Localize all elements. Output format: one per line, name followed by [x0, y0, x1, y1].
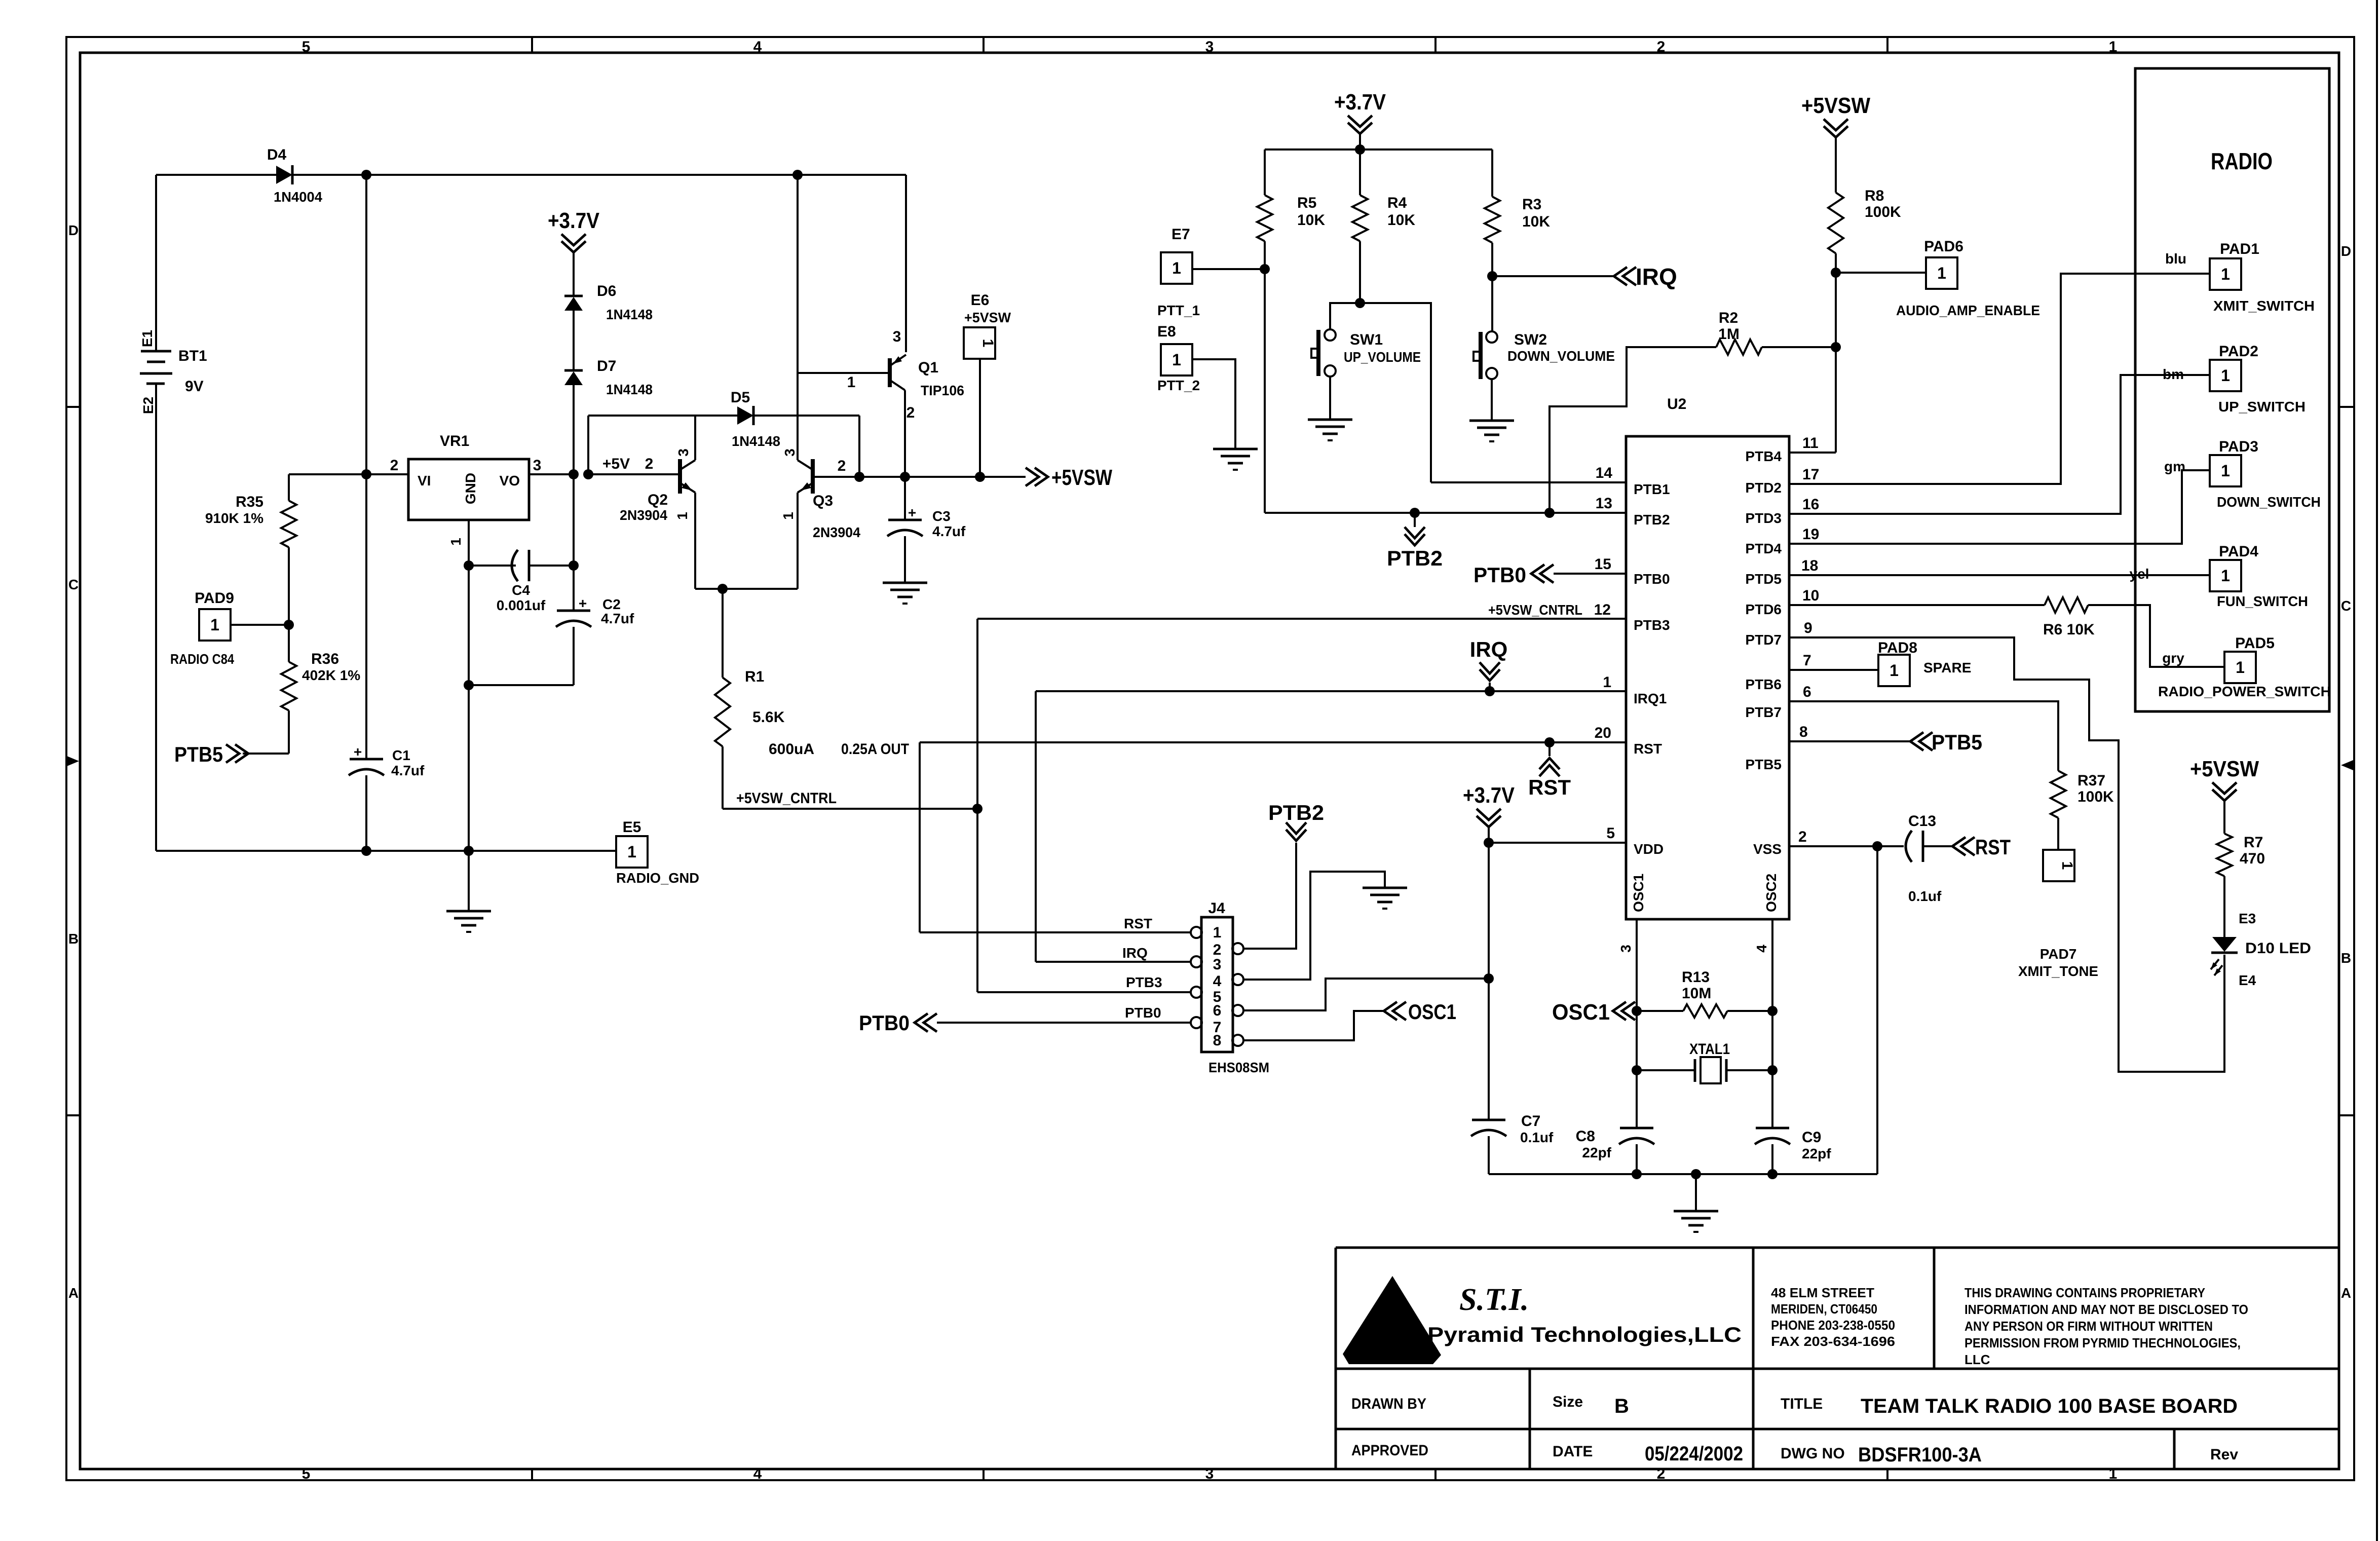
svg-text:2: 2	[1657, 1465, 1666, 1482]
node C9 rail	[1767, 1169, 1778, 1179]
svg-text:1: 1	[674, 512, 690, 520]
svg-text:blu: blu	[2165, 251, 2186, 267]
svg-text:VDD: VDD	[1634, 841, 1664, 857]
wire node down to R2	[1835, 273, 1837, 347]
wire VSS branch down to OSC ground rail	[1876, 846, 1878, 1174]
svg-text:470: 470	[2240, 850, 2265, 867]
wire C13 to RST tag	[1923, 845, 1951, 847]
mid-page arrow left border	[67, 756, 79, 766]
wire E8 to ground	[1192, 359, 1235, 449]
svg-text:DWG NO: DWG NO	[1781, 1445, 1845, 1462]
IC U2 MC68HC908	[1626, 436, 1789, 919]
node C4 right	[569, 560, 579, 571]
svg-text:Size: Size	[1553, 1394, 1583, 1410]
svg-text:3: 3	[1205, 39, 1214, 55]
svg-text:2: 2	[390, 457, 399, 474]
transistor Q3 2N3904	[811, 459, 815, 494]
wire U2 pin13 PTB2 net	[1265, 512, 1626, 514]
svg-text:D10 LED: D10 LED	[2245, 940, 2311, 957]
wire U2 pin6 PTB7 to R37	[1789, 701, 2058, 771]
svg-text:48 ELM STREET: 48 ELM STREET	[1771, 1285, 1874, 1300]
svg-text:PTB2: PTB2	[1387, 546, 1443, 570]
svg-text:PTD6: PTD6	[1745, 602, 1782, 617]
wire R6 to PAD5	[2088, 605, 2224, 667]
node IRQ tag stem	[1485, 686, 1495, 696]
node Q1 collector on +5VSW rail	[900, 472, 910, 482]
svg-text:J4: J4	[1208, 900, 1225, 917]
transistor Q2 2N3904	[678, 459, 682, 494]
svg-text:4.7uf: 4.7uf	[932, 523, 966, 539]
pin 5 J4	[1191, 987, 1202, 998]
wire emitter node to R1	[722, 589, 724, 678]
svg-text:1M: 1M	[1718, 326, 1740, 343]
svg-text:20: 20	[1595, 725, 1611, 741]
svg-text:PTB2: PTB2	[1634, 512, 1670, 528]
svg-text:PTB3: PTB3	[1634, 617, 1670, 633]
svg-text:B: B	[2341, 950, 2351, 966]
wire U2 pin19 PTD4 to PAD3	[1789, 470, 2210, 544]
wire main vertical to C1	[365, 474, 367, 759]
svg-text:1: 1	[210, 616, 219, 634]
svg-text:3: 3	[1213, 956, 1222, 973]
svg-text:0.1uf: 0.1uf	[1520, 1130, 1554, 1145]
svg-text:E1: E1	[139, 330, 155, 347]
svg-text:2N3904: 2N3904	[813, 524, 860, 540]
node E6 on rail	[975, 472, 985, 482]
svg-text:Rev: Rev	[2210, 1446, 2238, 1463]
svg-text:1N4004: 1N4004	[274, 189, 322, 205]
svg-text:E8: E8	[1157, 323, 1176, 340]
svg-text:6: 6	[1803, 684, 1811, 700]
svg-text:C8: C8	[1576, 1128, 1595, 1145]
node PAD9 junction	[284, 620, 294, 630]
svg-text:600uA: 600uA	[769, 741, 814, 758]
wire J4 pin8 to OSC1 tag	[1242, 1011, 1383, 1040]
svg-text:E6: E6	[971, 292, 990, 309]
svg-text:+: +	[908, 505, 916, 520]
wire +3.7V to VDD node	[1488, 826, 1490, 843]
net tag IRQ (pin1)	[1489, 683, 1491, 691]
wire battery positive rail	[155, 175, 157, 351]
svg-text:RST: RST	[1634, 741, 1662, 757]
svg-text:EHS08SM: EHS08SM	[1208, 1060, 1269, 1075]
svg-text:E2: E2	[140, 397, 156, 414]
svg-text:Q2: Q2	[648, 492, 668, 508]
svg-text:4.7uf: 4.7uf	[601, 611, 634, 626]
wire U2 pin11 PTB4 to R8 branch	[1789, 452, 1836, 454]
svg-text:TIP106: TIP106	[921, 383, 964, 398]
wire Q2 emitter down	[694, 493, 696, 589]
svg-text:E5: E5	[623, 819, 641, 836]
node XTAL1 left	[1632, 1065, 1642, 1075]
wire node to PAD6	[1836, 272, 1926, 274]
node GND rail	[464, 846, 474, 856]
node OSC1 net	[1632, 1006, 1642, 1016]
svg-text:OSC1: OSC1	[1408, 1000, 1456, 1024]
svg-text:RADIO: RADIO	[2211, 148, 2273, 174]
svg-text:B: B	[68, 931, 79, 947]
wire J4 pin2 to PTB2 tag	[1242, 843, 1296, 949]
power tag +3.7V (VDD)	[1488, 826, 1490, 834]
node GND-C2 return	[464, 680, 474, 690]
wire C9 to rail	[1771, 1144, 1773, 1174]
svg-text:1N4148: 1N4148	[606, 382, 653, 397]
node PTB2 tag stem	[1410, 508, 1420, 518]
svg-text:3: 3	[782, 448, 798, 457]
svg-text:+3.7V: +3.7V	[1334, 90, 1386, 115]
svg-text:OSC1: OSC1	[1552, 1000, 1610, 1025]
pad PAD3 DOWN_SWITCH	[2210, 455, 2241, 486]
svg-text:C2: C2	[602, 596, 621, 612]
svg-text:6: 6	[1213, 1002, 1222, 1019]
net tag RST (pin20)	[1548, 742, 1551, 756]
svg-text:+3.7V: +3.7V	[548, 208, 600, 233]
svg-text:GND: GND	[463, 473, 478, 504]
node XTAL1 right	[1767, 1065, 1778, 1075]
wire rail to Q3 collector branch	[366, 174, 798, 176]
node +3.7V rail	[1355, 144, 1365, 155]
svg-text:C13: C13	[1908, 813, 1936, 830]
svg-text:0.25A OUT: 0.25A OUT	[841, 741, 909, 758]
svg-text:3: 3	[1618, 945, 1634, 953]
svg-text:PTD2: PTD2	[1745, 480, 1782, 496]
svg-text:THIS DRAWING CONTAINS PROPRIET: THIS DRAWING CONTAINS PROPRIETARY	[1965, 1285, 2205, 1300]
wire Q3 collector up to battery rail	[797, 175, 799, 460]
node R2-R8	[1831, 342, 1841, 352]
resistor R37 100K	[2051, 771, 2066, 818]
pin 3 J4	[1191, 956, 1202, 967]
wire rail to Q1 collector	[798, 174, 906, 176]
svg-text:OSC2: OSC2	[1763, 874, 1779, 912]
wire R4 to SW1 node	[1359, 241, 1361, 303]
svg-text:19: 19	[1802, 526, 1819, 543]
svg-text:5.6K: 5.6K	[752, 709, 785, 726]
svg-text:4: 4	[753, 39, 762, 55]
node emitter bus to R1	[717, 584, 728, 594]
wire D4 node down to VR1 input	[365, 175, 367, 474]
wire C4 link	[469, 565, 516, 567]
svg-text:IRQ: IRQ	[1122, 945, 1148, 961]
svg-text:XMIT_SWITCH: XMIT_SWITCH	[2213, 298, 2315, 314]
node VSS down branch	[1872, 841, 1882, 851]
diode D4	[276, 166, 292, 184]
resistor R3 10K	[1485, 197, 1500, 243]
svg-text:UP_VOLUME: UP_VOLUME	[1344, 349, 1421, 365]
node D5 to rail	[854, 472, 864, 482]
wire PAD9 to node	[231, 624, 289, 626]
wire VR1 GND pin down	[468, 520, 470, 851]
svg-text:3: 3	[675, 448, 691, 457]
ground symbol under C3	[883, 582, 927, 584]
svg-text:+: +	[354, 744, 362, 760]
wire D4 cathode to node	[292, 174, 366, 176]
wire Q3 emitter down	[797, 493, 799, 589]
wire R2 left leg	[1550, 347, 1716, 513]
net tag +5VSW output	[1026, 468, 1039, 486]
svg-text:D: D	[2341, 243, 2351, 259]
svg-text:IRQ1: IRQ1	[1634, 691, 1667, 706]
svg-text:PTB0: PTB0	[1125, 1005, 1161, 1021]
pad E7 PTT_1	[1161, 252, 1192, 284]
svg-text:10M: 10M	[1682, 985, 1711, 1002]
svg-text:12: 12	[1594, 602, 1611, 618]
wire node to VR1 VI	[366, 473, 408, 475]
switch SW1 UP_VOLUME	[1316, 330, 1320, 376]
diode D6 1N4148	[564, 297, 583, 311]
svg-text:PAD2: PAD2	[2219, 343, 2258, 360]
svg-text:+5V: +5V	[602, 456, 630, 472]
pad PAD5 RADIO_POWER_SWITCH	[2224, 652, 2256, 683]
svg-text:PTB3: PTB3	[1126, 974, 1162, 990]
svg-text:11: 11	[1802, 435, 1819, 452]
wire U2 pin4 OSC2 down	[1771, 919, 1773, 1128]
node J4 pin6 on VDD branch	[1484, 973, 1494, 984]
title block column divider dwg/rev	[2173, 1429, 2176, 1469]
node VR1 input	[361, 469, 371, 479]
svg-text:PTD7: PTD7	[1745, 632, 1782, 648]
svg-text:5: 5	[1606, 825, 1615, 842]
title block outline	[1336, 1247, 2339, 1249]
svg-text:Q3: Q3	[813, 493, 833, 509]
svg-text:1: 1	[2221, 462, 2230, 480]
svg-text:1N4148: 1N4148	[606, 307, 653, 322]
wire VDD branch down to C7	[1488, 843, 1490, 1120]
svg-text:1: 1	[2221, 265, 2230, 283]
pad PAD8 SPARE	[1878, 655, 1910, 686]
svg-text:+: +	[579, 595, 587, 611]
svg-text:8: 8	[1213, 1032, 1222, 1049]
svg-text:SW1: SW1	[1350, 331, 1383, 348]
svg-text:C: C	[68, 577, 79, 592]
svg-text:Q1: Q1	[918, 359, 938, 376]
node rail ground stub	[1691, 1169, 1701, 1179]
wire +5VSW to R7	[2223, 800, 2225, 834]
svg-text:0.001uf: 0.001uf	[497, 597, 546, 613]
svg-text:PTB1: PTB1	[1634, 481, 1670, 497]
node OSC2 net	[1767, 1006, 1778, 1016]
wire J4 pin4 to ground	[1242, 872, 1385, 980]
svg-text:PTB0: PTB0	[1474, 563, 1526, 587]
svg-text:DRAWN BY: DRAWN BY	[1351, 1396, 1426, 1412]
svg-text:PTT_1: PTT_1	[1157, 303, 1200, 318]
wire U2 pin18 PTD5 to PAD4	[1789, 574, 2210, 576]
RADIO interface box	[2135, 68, 2329, 711]
pad PAD6 AUDIO_AMP_ENABLE	[1926, 257, 1957, 289]
ground symbol J4 pin4	[1363, 887, 1407, 889]
net tag OSC1 (J4)	[1384, 1002, 1397, 1020]
svg-text:2N3904: 2N3904	[620, 507, 667, 523]
svg-text:AUDIO_AMP_ENABLE: AUDIO_AMP_ENABLE	[1896, 303, 2040, 318]
svg-text:5: 5	[302, 1465, 311, 1482]
wire pull-up rail	[1265, 148, 1492, 151]
svg-text:1: 1	[627, 843, 636, 861]
node GND-C4	[464, 560, 474, 571]
svg-text:3: 3	[533, 457, 542, 474]
zone ticks bottom	[531, 1469, 533, 1480]
svg-text:1: 1	[1890, 661, 1899, 680]
svg-text:PAD9: PAD9	[195, 590, 234, 607]
svg-text:910K 1%: 910K 1%	[205, 510, 263, 526]
svg-text:10: 10	[1802, 587, 1819, 604]
pad PAD2 UP_SWITCH	[2210, 360, 2241, 391]
svg-text:R4: R4	[1387, 195, 1407, 211]
svg-text:1: 1	[1937, 264, 1946, 282]
svg-text:FAX 203-634-1696: FAX 203-634-1696	[1771, 1334, 1895, 1349]
svg-text:D5: D5	[731, 389, 750, 406]
ground symbol SW1	[1308, 419, 1352, 421]
zone ticks right	[2339, 406, 2354, 408]
wire R2 right to R8 branch	[1762, 346, 1836, 348]
svg-text:D6: D6	[597, 283, 616, 299]
svg-text:13: 13	[1596, 495, 1612, 512]
svg-text:3: 3	[1205, 1465, 1214, 1482]
capacitor C7 0.1uf	[1472, 1119, 1505, 1121]
svg-text:PAD1: PAD1	[2220, 241, 2259, 257]
capacitor C8 22pf	[1620, 1127, 1653, 1130]
capacitor C2 4.7uf	[557, 610, 590, 612]
svg-text:1: 1	[2236, 658, 2245, 676]
svg-text:PAD5: PAD5	[2235, 635, 2275, 652]
svg-text:4: 4	[1754, 945, 1769, 953]
svg-text:PAD8: PAD8	[1878, 640, 1917, 656]
wire IRQ node to tag	[1492, 275, 1613, 277]
resistor R35 910K 1%	[281, 501, 296, 547]
svg-text:16: 16	[1802, 496, 1819, 513]
wire Q3 base to +5VSW rail	[815, 476, 859, 478]
wire C2 to GND return	[573, 627, 575, 685]
svg-text:2: 2	[1657, 39, 1666, 55]
svg-text:PAD7: PAD7	[2040, 946, 2077, 962]
svg-text:DATE: DATE	[1553, 1443, 1593, 1460]
svg-text:XMIT_TONE: XMIT_TONE	[2018, 963, 2098, 979]
diode D7 1N4148	[564, 371, 583, 385]
wire R36 to PTB5 tag	[288, 710, 290, 754]
svg-text:RADIO_GND: RADIO_GND	[616, 870, 699, 886]
svg-text:PTD4: PTD4	[1745, 541, 1782, 556]
svg-text:9V: 9V	[185, 378, 204, 395]
net tag IRQ (R3)	[1614, 267, 1627, 285]
svg-text:C1: C1	[392, 747, 410, 763]
svg-text:MERIDEN, CT06450: MERIDEN, CT06450	[1771, 1301, 1877, 1317]
wire D6 to D7	[573, 311, 575, 370]
svg-text:PTD5: PTD5	[1745, 571, 1782, 587]
svg-text:RST: RST	[1528, 775, 1571, 799]
svg-text:1: 1	[1172, 259, 1181, 277]
svg-text:PTB0: PTB0	[859, 1011, 910, 1035]
pin 8 J4	[1232, 1035, 1243, 1046]
wire C1 to ground rail	[365, 775, 367, 851]
capacitor C4 0.001uf	[512, 550, 518, 581]
svg-text:PTB0: PTB0	[1634, 571, 1670, 587]
svg-text:10K: 10K	[1297, 212, 1325, 229]
mid-page arrow right border	[2341, 760, 2353, 770]
svg-text:C3: C3	[932, 508, 951, 524]
zone ticks left	[66, 406, 80, 408]
wire C8 to rail	[1636, 1144, 1638, 1174]
power tag +3.7V (switch pull-ups)	[1359, 133, 1361, 141]
svg-text:D: D	[68, 222, 79, 238]
net tag PTB5 (pin8)	[1910, 732, 1923, 750]
wire rail ground stub	[1695, 1174, 1697, 1211]
svg-text:14: 14	[1596, 465, 1613, 481]
svg-text:VR1: VR1	[440, 433, 469, 449]
resistor R6 10K	[2045, 597, 2088, 613]
svg-text:PTB4: PTB4	[1745, 448, 1782, 464]
wire OSC ground rail	[1489, 1173, 1877, 1175]
node IRQ junction	[1487, 271, 1497, 281]
svg-text:PERMISSION FROM PYRMID THECHNO: PERMISSION FROM PYRMID THECHNOLOGIES,	[1965, 1335, 2241, 1350]
wire emitter bus	[695, 588, 798, 590]
wire VR1 VO to +5V node	[529, 473, 574, 475]
svg-text:E3: E3	[2239, 911, 2256, 926]
crystal XTAL1	[1637, 1069, 1695, 1071]
transistor Q1 TIP106	[888, 358, 892, 387]
wire D5 cathode to Q3 base node	[753, 415, 859, 417]
svg-text:2: 2	[906, 404, 915, 421]
ground symbol OSC rail	[1674, 1210, 1718, 1213]
pin 2 J4	[1232, 943, 1243, 954]
svg-text:SW2: SW2	[1514, 331, 1547, 348]
svg-text:RADIO_POWER_SWITCH: RADIO_POWER_SWITCH	[2158, 684, 2331, 699]
title block row divider 2	[1336, 1428, 2339, 1431]
svg-text:2: 2	[838, 458, 846, 474]
svg-text:R3: R3	[1522, 196, 1541, 213]
svg-text:C9: C9	[1802, 1129, 1821, 1146]
wire PTB3 net down to J4 pin5	[976, 809, 978, 992]
svg-text:+5VSW: +5VSW	[1051, 465, 1112, 490]
wire U2 pin8 PTB5 tag	[1789, 740, 1910, 742]
svg-text:5: 5	[302, 39, 311, 55]
wire R3 to IRQ node	[1491, 243, 1493, 276]
svg-text:VO: VO	[500, 473, 520, 488]
wire U2 pin5 VDD	[1489, 842, 1626, 844]
net tag PTB2 (pin13)	[1414, 513, 1416, 527]
resistor R1 5.6K	[715, 678, 730, 746]
wire RST net U2 pin20 loop to J4 pin1	[920, 741, 1626, 743]
svg-text:1N4148: 1N4148	[732, 433, 780, 449]
svg-text:100K: 100K	[1865, 204, 1901, 220]
svg-text:PTB2: PTB2	[1268, 801, 1324, 824]
wire IRQ net U2 pin1 loop to J4 pin3	[1036, 690, 1626, 692]
svg-text:R2: R2	[1719, 310, 1738, 326]
svg-text:1: 1	[2221, 366, 2230, 385]
wire E7 to node	[1192, 268, 1265, 270]
svg-text:ANY PERSON OR FIRM WITHOUT WRI: ANY PERSON OR FIRM WITHOUT WRITTEN	[1965, 1319, 2213, 1334]
wire U2 pin9 PTD7 to LED cathode	[1789, 637, 2224, 1072]
wire +5VSW rail	[859, 476, 1026, 478]
svg-text:FUN_SWITCH: FUN_SWITCH	[2217, 593, 2308, 609]
capacitor C13 0.1uf	[1906, 831, 1912, 862]
title block column divider drawnby/size	[1529, 1369, 1531, 1469]
svg-text:1: 1	[979, 339, 996, 348]
wire U2 pin16 PTD3 to PAD2	[1789, 375, 2210, 514]
svg-text:IRQ: IRQ	[1470, 637, 1508, 661]
svg-text:PTB6: PTB6	[1745, 676, 1782, 692]
capacitor C1 4.7uf	[350, 758, 383, 761]
resistor R4 10K	[1359, 149, 1361, 195]
pad PAD7 XMIT_TONE	[2043, 850, 2074, 881]
logo pyramid	[1343, 1276, 1441, 1364]
svg-text:1: 1	[1213, 924, 1222, 941]
svg-text:VSS: VSS	[1753, 841, 1782, 857]
svg-text:2: 2	[1798, 829, 1807, 845]
wire U2 pin2 VSS to C13	[1789, 845, 1904, 847]
svg-text:10K: 10K	[1522, 213, 1550, 230]
wire PTB3 net up to U2 pin12	[976, 619, 978, 809]
svg-text:05/224/2002: 05/224/2002	[1645, 1443, 1743, 1465]
svg-text:PAD6: PAD6	[1924, 238, 1963, 255]
switch SW2 DOWN_VOLUME	[1479, 332, 1483, 379]
